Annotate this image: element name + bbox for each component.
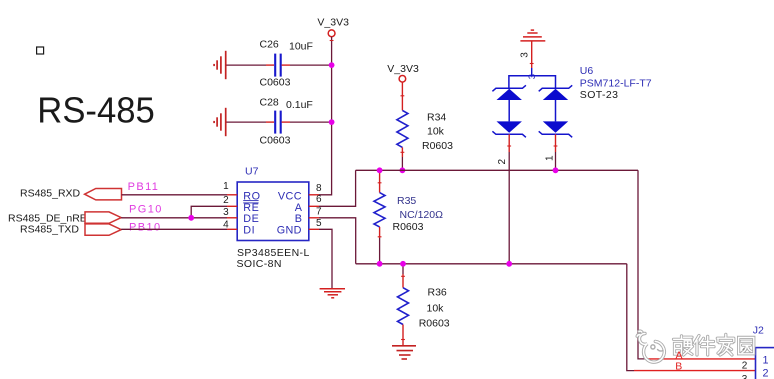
op-chip U7 SP3485EEN-L bbox=[237, 166, 310, 271]
svg-text:C0603: C0603 bbox=[260, 135, 291, 147]
svg-text:10uF: 10uF bbox=[289, 40, 313, 52]
pin 5 U7 bbox=[309, 228, 319, 230]
svg-text:VCC: VCC bbox=[278, 190, 302, 202]
svg-text:2: 2 bbox=[763, 368, 769, 379]
wire U7 GND pin to ground bbox=[319, 229, 332, 288]
svg-text:DI: DI bbox=[243, 225, 255, 237]
TVS diode D1b (U6 left bottom) bbox=[497, 121, 522, 132]
connector J2 bbox=[742, 324, 774, 379]
svg-text:3: 3 bbox=[520, 52, 531, 58]
svg-text:2: 2 bbox=[497, 159, 508, 165]
svg-text:V_3V3: V_3V3 bbox=[387, 63, 419, 75]
wire C26 to bus bbox=[290, 64, 332, 66]
junction C28/bus bbox=[329, 119, 335, 125]
svg-text:R0603: R0603 bbox=[422, 140, 453, 152]
resistor R34 bbox=[397, 110, 408, 147]
svg-text:PB11: PB11 bbox=[128, 181, 160, 193]
wire ground to C26 bbox=[227, 64, 267, 66]
pin lead C26 left bbox=[266, 64, 274, 66]
TVS diode D2b (U6 right bottom) bbox=[543, 121, 568, 132]
svg-text:C28: C28 bbox=[260, 96, 279, 108]
svg-text:5: 5 bbox=[316, 218, 322, 229]
pin 8 U7 bbox=[309, 194, 319, 196]
small square marker top-left bbox=[37, 47, 44, 54]
svg-text:R36: R36 bbox=[428, 287, 447, 299]
pin 2 U7 bbox=[227, 205, 237, 207]
svg-text:NC/120Ω: NC/120Ω bbox=[400, 209, 444, 221]
pin lead C26 right bbox=[282, 64, 290, 66]
svg-text:PB10: PB10 bbox=[129, 222, 162, 234]
svg-text:1: 1 bbox=[544, 155, 555, 161]
power port V_3V3 (top, above C26/C28 bus) bbox=[317, 16, 349, 36]
diode bracket U6 bbox=[509, 76, 556, 89]
junction R35/rail B bbox=[377, 261, 383, 267]
svg-text:R0603: R0603 bbox=[393, 221, 424, 233]
pin 1 lead U6 (right branch) bbox=[555, 134, 557, 152]
svg-text:7: 7 bbox=[316, 206, 322, 217]
svg-text:8: 8 bbox=[316, 183, 322, 194]
svg-text:SOIC-8N: SOIC-8N bbox=[237, 258, 282, 270]
sheet-entry arrow DE_nRE bbox=[85, 212, 121, 223]
svg-text:3: 3 bbox=[527, 74, 538, 79]
junction R35/rail A bbox=[377, 167, 383, 173]
svg-text:2: 2 bbox=[223, 195, 229, 206]
sheet-entry arrow TXD bbox=[85, 224, 121, 235]
wire U7 pin A to rail A bbox=[319, 170, 356, 206]
wire U6 pin2 to rail B (crosses rail A) bbox=[508, 152, 510, 264]
pin lead R34 top bbox=[401, 82, 403, 110]
svg-text:10k: 10k bbox=[427, 303, 445, 315]
svg-text:B: B bbox=[675, 361, 682, 373]
wire U6 pin1 to rail A bbox=[555, 152, 557, 170]
svg-text:0.1uF: 0.1uF bbox=[286, 99, 313, 111]
TVS diode D2a (U6 right top) bbox=[539, 85, 573, 91]
wire pin 2 branch bbox=[191, 206, 227, 218]
junction C26/bus bbox=[329, 62, 335, 68]
sheet-entry arrow RXD bbox=[85, 189, 122, 200]
svg-text:1: 1 bbox=[223, 181, 229, 192]
pin 6 U7 bbox=[309, 205, 319, 207]
resistor R35 bbox=[374, 193, 385, 227]
wire U7 pin B to rail B bbox=[319, 218, 356, 264]
wire rail A (top) bbox=[356, 169, 638, 171]
wire net B to J2 bbox=[627, 264, 634, 371]
ground (earth, below R36) bbox=[392, 346, 416, 359]
pin lead R36 top bbox=[402, 274, 404, 288]
wire stem to diode bracket bbox=[531, 68, 533, 76]
svg-text:R0603: R0603 bbox=[419, 318, 450, 330]
pin lead C28 left bbox=[266, 121, 274, 123]
svg-text:GND: GND bbox=[277, 225, 302, 237]
pin lead R35 top bbox=[379, 170, 381, 192]
svg-text:2: 2 bbox=[742, 361, 748, 372]
svg-text:R35: R35 bbox=[397, 195, 416, 207]
pin lead R36 bottom bbox=[402, 325, 404, 346]
ground (earth, below U7) bbox=[320, 289, 345, 298]
power port V_3V3 (above R34) bbox=[387, 63, 419, 82]
svg-text:SOT-23: SOT-23 bbox=[580, 89, 619, 101]
wire rail B to R36 bbox=[402, 264, 404, 274]
svg-text:B: B bbox=[295, 213, 302, 225]
wire R35 to rail B bbox=[379, 238, 381, 264]
capacitor C28 plates bbox=[275, 111, 281, 134]
watermark text (stylized CJK strokes) bbox=[674, 334, 754, 355]
pin 7 U7 bbox=[309, 217, 319, 219]
junction R36/rail B bbox=[400, 261, 406, 267]
wire between diodes right bbox=[555, 100, 557, 121]
svg-text:A: A bbox=[676, 349, 683, 361]
pin 3 lead U6 bbox=[531, 41, 533, 68]
svg-text:PG10: PG10 bbox=[129, 204, 163, 216]
pin lead J2 pin2 (net B) bbox=[634, 370, 756, 372]
junction U6 pin1 / rail A bbox=[553, 167, 559, 173]
pin lead C28 right bbox=[282, 121, 290, 123]
svg-text:U7: U7 bbox=[245, 166, 259, 178]
wire RXD to pin 1 bbox=[122, 194, 228, 196]
svg-text:RS-485: RS-485 bbox=[37, 90, 155, 131]
svg-text:J2: J2 bbox=[753, 324, 764, 336]
watermark logo eye and mouth bbox=[651, 345, 663, 351]
svg-text:C26: C26 bbox=[260, 39, 279, 51]
wire ground to C28 bbox=[227, 121, 267, 123]
junction pin2/pin3 wire bbox=[188, 215, 194, 221]
wire TXD to pin 4 bbox=[121, 228, 227, 230]
resistor R36 bbox=[398, 288, 409, 325]
svg-text:V_3V3: V_3V3 bbox=[317, 16, 349, 28]
wire R34 to rail A bbox=[401, 157, 403, 170]
capacitor C26 plates bbox=[275, 54, 281, 77]
svg-text:6: 6 bbox=[316, 194, 322, 205]
wire between diodes left bbox=[508, 100, 510, 121]
pin lead J2 pin1 (net A) bbox=[646, 358, 756, 360]
ground (chassis, left of C26) bbox=[214, 51, 226, 79]
pin 3 U7 bbox=[227, 217, 237, 219]
wire DE_nRE to pin 3 bbox=[121, 217, 227, 219]
chip body U7 bbox=[237, 182, 309, 241]
svg-text:10k: 10k bbox=[427, 126, 445, 138]
pin 1 U7 bbox=[227, 194, 237, 196]
svg-text:RS485_RXD: RS485_RXD bbox=[20, 188, 81, 200]
svg-text:3: 3 bbox=[223, 207, 229, 218]
pin 2 lead U6 (left branch) bbox=[508, 134, 510, 152]
svg-text:PSM712-LF-T7: PSM712-LF-T7 bbox=[580, 78, 652, 90]
svg-text:U6: U6 bbox=[580, 65, 594, 77]
svg-text:DE: DE bbox=[243, 213, 259, 225]
svg-text:R34: R34 bbox=[427, 111, 446, 123]
svg-text:1: 1 bbox=[763, 355, 769, 367]
wire V_3V3 bus vertical to U7 pin 8 bbox=[319, 37, 332, 195]
ground (chassis, left of C28) bbox=[214, 108, 226, 136]
junction U6 pin2 / rail B bbox=[506, 261, 512, 267]
svg-text:RS485_TXD: RS485_TXD bbox=[20, 223, 79, 235]
svg-text:3: 3 bbox=[742, 374, 748, 379]
ground (inverted, above U6) bbox=[520, 30, 545, 41]
pin lead R34 bottom bbox=[401, 147, 403, 157]
pin lead R35 bottom bbox=[379, 227, 381, 238]
pin 4 U7 bbox=[227, 228, 237, 230]
wire C28 to bus bbox=[290, 121, 332, 123]
svg-text:C0603: C0603 bbox=[260, 77, 291, 89]
pin-end ticks (red) bbox=[330, 41, 558, 340]
wire net A to J2 bbox=[638, 170, 646, 359]
wire rail B (bottom) bbox=[356, 263, 627, 265]
junction R34/rail A bbox=[400, 167, 406, 173]
TVS diode D1a (U6 left top) bbox=[492, 85, 526, 91]
